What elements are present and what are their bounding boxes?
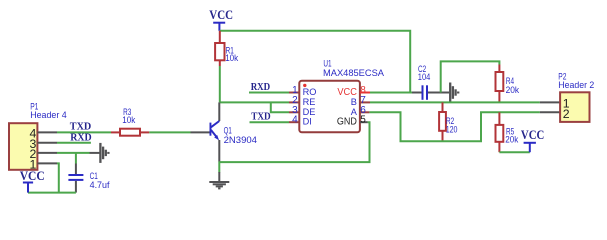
resistor R3 — [111, 107, 149, 136]
resistor R1 — [215, 31, 238, 66]
pin 1 RO — [289, 92, 299, 94]
wire top rail VCC — [220, 31, 410, 93]
wire R3 to base — [149, 131, 190, 133]
resistor R2 — [439, 102, 457, 141]
svg-text:TXD: TXD — [251, 111, 271, 123]
svg-text:2: 2 — [563, 107, 570, 121]
svg-text:10k: 10k — [122, 115, 135, 125]
svg-text:104: 104 — [418, 72, 431, 82]
svg-text:VCC: VCC — [20, 169, 45, 183]
svg-text:B: B — [351, 97, 357, 107]
wire emitter to ground — [218, 162, 220, 173]
wire A stub into P2 — [540, 111, 560, 113]
ground (Q1 emitter) — [209, 172, 229, 188]
svg-text:Q1: Q1 — [224, 125, 232, 135]
svg-text:VCC: VCC — [209, 8, 233, 22]
svg-text:2N3904: 2N3904 — [224, 135, 257, 145]
svg-text:RXD: RXD — [251, 81, 271, 93]
connector P1 — [9, 102, 67, 172]
svg-text:Header 2: Header 2 — [558, 80, 594, 90]
ground (P1 pin2) — [90, 143, 109, 163]
wire bottom rail — [28, 192, 76, 194]
svg-text:4: 4 — [292, 115, 298, 126]
svg-text:20k: 20k — [506, 85, 520, 95]
wire RXD (P1 pin3) — [57, 142, 91, 144]
pin 4 DI — [289, 121, 299, 123]
pin 8 VCC — [360, 92, 370, 94]
capacitor C2 — [412, 64, 449, 100]
wire TXD (P1 pin4) — [57, 131, 111, 133]
svg-text:4.7uf: 4.7uf — [90, 180, 110, 190]
svg-text:GND: GND — [337, 117, 357, 128]
wire TXD to DI — [250, 121, 290, 123]
svg-text:Header 4: Header 4 — [30, 110, 66, 120]
svg-text:RE: RE — [303, 97, 316, 107]
wire R5 to VCC — [499, 151, 529, 153]
svg-text:5: 5 — [360, 115, 366, 126]
wire VCC net pin8 — [370, 92, 412, 94]
svg-text:U1: U1 — [323, 59, 331, 69]
transistor Q1 — [191, 102, 258, 161]
svg-text:MAX485ECSA: MAX485ECSA — [323, 68, 385, 78]
svg-text:DE: DE — [303, 107, 316, 117]
pin 6 A — [360, 111, 370, 113]
svg-text:VCC: VCC — [521, 128, 544, 142]
svg-text:120: 120 — [446, 125, 458, 135]
ground (C2) — [450, 83, 458, 103]
wire A net — [369, 112, 539, 141]
IC U1 MAX485ECSA — [289, 59, 385, 133]
svg-text:A: A — [351, 107, 358, 117]
connector P2 — [558, 72, 594, 122]
wire B stub into P2 — [540, 101, 560, 103]
wire B net — [370, 101, 540, 103]
power VCC (top) — [209, 8, 233, 31]
wire R1 to collector node — [219, 66, 221, 102]
wire RE net — [220, 101, 289, 103]
power VCC (right) — [521, 128, 544, 152]
resistor R4 — [441, 61, 520, 102]
svg-text:DI: DI — [303, 117, 312, 127]
resistor R5 — [496, 112, 519, 152]
wire P1 pin2 to ground — [57, 152, 90, 154]
svg-text:RXD: RXD — [70, 132, 92, 144]
power VCC (P1) — [20, 169, 45, 193]
svg-text:20k: 20k — [505, 134, 518, 144]
pin 3 DE — [289, 111, 299, 113]
pin 7 B — [360, 101, 370, 103]
svg-text:RO: RO — [303, 87, 317, 97]
capacitor C1 — [68, 153, 110, 193]
wire DE drop — [271, 102, 289, 112]
wire emitter branch to pin5 — [219, 122, 369, 162]
pin 5 GND — [360, 121, 368, 123]
wire P1 pin1 drop — [57, 163, 59, 192]
svg-text:TXD: TXD — [70, 120, 92, 132]
svg-text:10k: 10k — [225, 53, 238, 63]
pin 2 RE — [289, 101, 299, 103]
wire RXD to pin1 — [249, 92, 289, 94]
